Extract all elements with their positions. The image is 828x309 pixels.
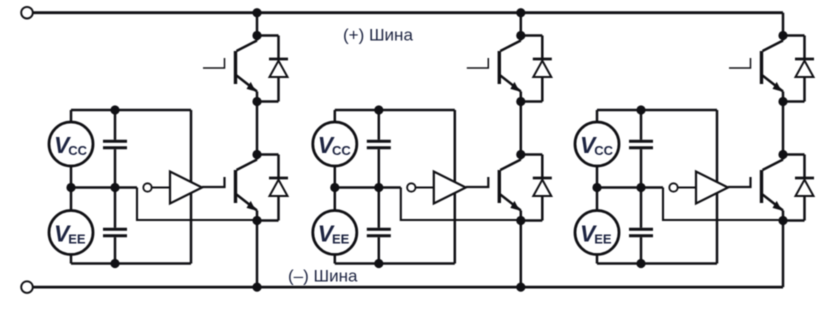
node: top rail / C1a junction bbox=[110, 105, 119, 114]
node: emitter junction of Q2L bbox=[516, 216, 525, 225]
wire: phase leg 2 (low-side emitter to bottom bus) bbox=[520, 221, 523, 288]
node: VCC-VEE midpoint junction bbox=[330, 183, 339, 192]
transistor Q2L (IGBT) bbox=[466, 155, 521, 221]
wire: phase leg 3 (high-side emitter to low-side collector) bbox=[782, 102, 785, 155]
wire: driver block top rail (phase 1) bbox=[71, 109, 191, 112]
wire: kelvin emitter return (phase 2) bbox=[401, 188, 521, 221]
terminal: (-) bus input bbox=[21, 281, 33, 293]
node: middle rail / capacitor junction bbox=[110, 183, 119, 192]
terminal: (+) bus input bbox=[21, 7, 33, 19]
node: collector junction of Q1H bbox=[252, 31, 261, 40]
node: collector junction of Q3L bbox=[778, 150, 787, 159]
wire: phase leg 3 (low-side emitter to bottom bus) bbox=[782, 221, 785, 288]
wire: driver block right edge / buffer supply (phase 1) bbox=[190, 110, 193, 264]
node: emitter junction of Q2H bbox=[516, 97, 525, 106]
wire: phase leg 1 (low-side emitter to bottom bus) bbox=[256, 221, 259, 288]
wire: phase leg 2 (high-side emitter to low-side collector) bbox=[520, 102, 523, 155]
op-amp U1 (gate drive buffer) bbox=[170, 172, 202, 204]
capacitor C1a (VCC bypass) bbox=[103, 110, 127, 188]
transistor Q3L (IGBT) bbox=[728, 155, 783, 221]
wire: driver block bottom rail (phase 3) bbox=[597, 262, 717, 265]
svg-text:CC: CC bbox=[594, 143, 613, 158]
node: middle rail / capacitor junction bbox=[636, 183, 645, 192]
op-amp U3 (gate drive buffer) bbox=[696, 172, 728, 204]
voltage source VEE (phase 3) bbox=[575, 211, 619, 255]
node: phase leg 1 / (-) bus junction bbox=[252, 283, 261, 292]
svg-text:EE: EE bbox=[594, 232, 612, 247]
label VCC (phase 3) bbox=[580, 132, 614, 158]
wire: kelvin emitter return (phase 3) bbox=[663, 188, 783, 221]
voltage source VCC (phase 2) bbox=[313, 122, 357, 166]
wire: phase leg 2 (top bus to high-side collector) bbox=[520, 13, 523, 36]
op-amp U2 input bubble bbox=[407, 183, 415, 191]
transistor Q3H (IGBT) bbox=[729, 36, 783, 102]
transistor Q1H (IGBT) bbox=[203, 36, 257, 102]
capacitor C2a (VCC bypass) bbox=[367, 110, 391, 188]
voltage source VCC (phase 3) bbox=[575, 122, 619, 166]
capacitor C2b (VEE bypass) bbox=[367, 188, 391, 264]
node: collector junction of Q1L bbox=[252, 150, 261, 159]
op-amp U1 input bubble bbox=[143, 183, 151, 191]
diode D3H (anti-parallel) bbox=[783, 36, 814, 102]
wire: left rail segments (phase 3) bbox=[596, 110, 599, 264]
wire: driver block right edge / buffer supply (phase 2) bbox=[454, 110, 457, 264]
voltage source VEE (phase 1) bbox=[49, 211, 93, 255]
wire: middle rail (phase 3) bbox=[597, 186, 663, 189]
node: emitter junction of Q3L bbox=[778, 216, 787, 225]
wire: driver block top rail (phase 2) bbox=[335, 109, 455, 112]
op-amp U3 input bubble bbox=[669, 183, 677, 191]
wire: buffer input (phase 3) bbox=[678, 186, 696, 188]
diode D2L (anti-parallel) bbox=[521, 155, 552, 221]
capacitor C3b (VEE bypass) bbox=[629, 188, 653, 264]
transistor Q1L (IGBT) bbox=[202, 155, 257, 221]
voltage source VEE (phase 2) bbox=[313, 211, 357, 255]
wire: (-) bus bbox=[33, 286, 783, 289]
node: top rail / C2a junction bbox=[374, 105, 383, 114]
op-amp U2 (gate drive buffer) bbox=[434, 172, 466, 204]
wire: left rail segments (phase 1) bbox=[70, 110, 73, 264]
capacitor C1b (VEE bypass) bbox=[103, 188, 127, 264]
node: VCC-VEE midpoint junction bbox=[66, 183, 75, 192]
node: collector junction of Q2L bbox=[516, 150, 525, 159]
svg-text:CC: CC bbox=[332, 143, 351, 158]
wire: phase leg 3 (top bus to high-side collector) bbox=[782, 13, 785, 36]
node: top rail / C3a junction bbox=[636, 105, 645, 114]
node: phase leg 1 / (+) bus junction bbox=[252, 8, 261, 17]
wire: middle rail (phase 1) bbox=[71, 186, 137, 189]
wire: driver block bottom rail (phase 2) bbox=[335, 262, 455, 265]
node: emitter junction of Q1H bbox=[252, 97, 261, 106]
diode D2H (anti-parallel) bbox=[521, 36, 552, 102]
node: bottom rail / C3b junction bbox=[636, 259, 645, 268]
wire: buffer input (phase 1) bbox=[152, 186, 170, 188]
diode D3L (anti-parallel) bbox=[783, 155, 814, 221]
node: collector junction of Q3H bbox=[778, 31, 787, 40]
transistor Q2H (IGBT) bbox=[467, 36, 521, 102]
voltage source VCC (phase 1) bbox=[49, 122, 93, 166]
wire: driver block bottom rail (phase 1) bbox=[71, 262, 191, 265]
wire: kelvin emitter return (phase 1) bbox=[137, 188, 257, 221]
capacitor C3a (VCC bypass) bbox=[629, 110, 653, 188]
wire: driver block top rail (phase 3) bbox=[597, 109, 717, 112]
wire: left rail segments (phase 2) bbox=[334, 110, 337, 264]
node: bottom rail / C1b junction bbox=[110, 259, 119, 268]
node: phase leg 2 / (+) bus junction bbox=[516, 8, 525, 17]
node: emitter junction of Q1L bbox=[252, 216, 261, 225]
label VCC (phase 1) bbox=[54, 132, 88, 158]
wire: buffer input (phase 2) bbox=[415, 186, 433, 188]
node: emitter junction of Q3H bbox=[778, 97, 787, 106]
label VEE (phase 1) bbox=[54, 221, 86, 247]
wire: middle rail (phase 2) bbox=[335, 186, 401, 189]
label VCC (phase 2) bbox=[318, 132, 352, 158]
svg-text:(–) Шина: (–) Шина bbox=[288, 266, 358, 285]
svg-text:(+) Шина: (+) Шина bbox=[343, 25, 413, 44]
wire: phase leg 1 (high-side emitter to low-side collector) bbox=[256, 102, 259, 155]
node: VCC-VEE midpoint junction bbox=[592, 183, 601, 192]
diode D1L (anti-parallel) bbox=[257, 155, 288, 221]
svg-text:CC: CC bbox=[68, 143, 87, 158]
wire: phase leg 1 (top bus to high-side collector) bbox=[256, 13, 259, 36]
svg-text:EE: EE bbox=[332, 232, 350, 247]
wire: (+) bus bbox=[33, 11, 783, 14]
diode D1H (anti-parallel) bbox=[257, 36, 288, 102]
node: middle rail / capacitor junction bbox=[374, 183, 383, 192]
svg-text:EE: EE bbox=[68, 232, 86, 247]
node: phase leg 2 / (-) bus junction bbox=[516, 283, 525, 292]
node: bottom rail / C2b junction bbox=[374, 259, 383, 268]
wire: driver block right edge / buffer supply (phase 3) bbox=[716, 110, 719, 264]
label VEE (phase 3) bbox=[580, 221, 612, 247]
label VEE (phase 2) bbox=[318, 221, 350, 247]
node: collector junction of Q2H bbox=[516, 31, 525, 40]
